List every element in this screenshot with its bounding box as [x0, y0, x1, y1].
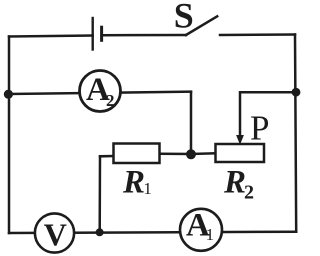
- wire A2 branch horizontal (left rail to corner above R-junction): [9, 92, 191, 94]
- ammeter A1 circle: [180, 209, 222, 251]
- wire top-left segment (left corner to battery): [9, 36, 93, 37]
- svg-text:R: R: [223, 165, 246, 201]
- resistor R1 body: [114, 144, 160, 164]
- battery B1 short plate (negative): [100, 27, 103, 40]
- node junction dot on bottom wire (R1 drop): [96, 228, 104, 236]
- wire R1 left lead: [100, 155, 114, 158]
- svg-text:2: 2: [244, 181, 254, 203]
- node junction dot on right rail (wiper branch): [292, 88, 301, 97]
- ammeter A2 circle: [80, 71, 121, 112]
- svg-text:P: P: [250, 109, 269, 148]
- wiper arrowhead P onto R2: [236, 135, 244, 145]
- node M junction dot (R1/R2/A2 branch): [186, 149, 196, 159]
- svg-text:V: V: [44, 216, 67, 252]
- wire right rail: [295, 35, 296, 232]
- svg-text:S: S: [174, 0, 194, 35]
- wire R1 left vertical drop to bottom wire: [98, 156, 101, 232]
- rheostat R2 body: [216, 144, 265, 162]
- battery B1 long plate (positive): [91, 18, 93, 50]
- wire wiper branch: right-rail dot left then down to arrow P: [240, 92, 296, 136]
- svg-text:1: 1: [143, 179, 152, 198]
- svg-text:1: 1: [206, 225, 215, 244]
- node junction dot on left rail (A2 branch): [4, 90, 13, 99]
- svg-text:R: R: [122, 164, 145, 200]
- wire R1 right lead to node M: [160, 152, 192, 155]
- wire left rail: [8, 37, 11, 234]
- wire top-middle segment (battery to switch): [102, 34, 186, 37]
- wire A2 branch vertical drop to node M: [190, 92, 193, 155]
- wire node M to R2 left lead: [191, 152, 216, 155]
- switch S lever: [186, 16, 217, 35]
- svg-text:2: 2: [106, 91, 115, 110]
- wire top-right segment (switch to right corner): [220, 33, 295, 36]
- voltmeter V circle: [35, 213, 74, 252]
- wire bottom (left corner to V, V to A1, A1 to right corner): [9, 232, 296, 233]
